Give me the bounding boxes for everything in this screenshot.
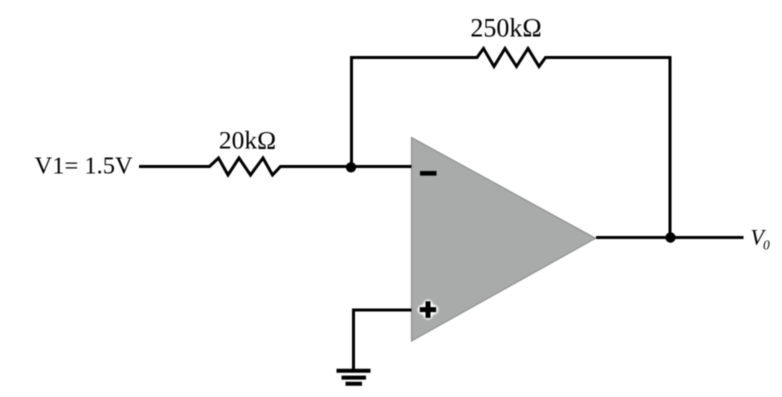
svg-text:0: 0 <box>763 238 770 253</box>
svg-text:20kΩ: 20kΩ <box>219 126 276 155</box>
svg-text:250kΩ: 250kΩ <box>470 14 541 43</box>
svg-text:V1= 1.5V: V1= 1.5V <box>35 153 134 180</box>
